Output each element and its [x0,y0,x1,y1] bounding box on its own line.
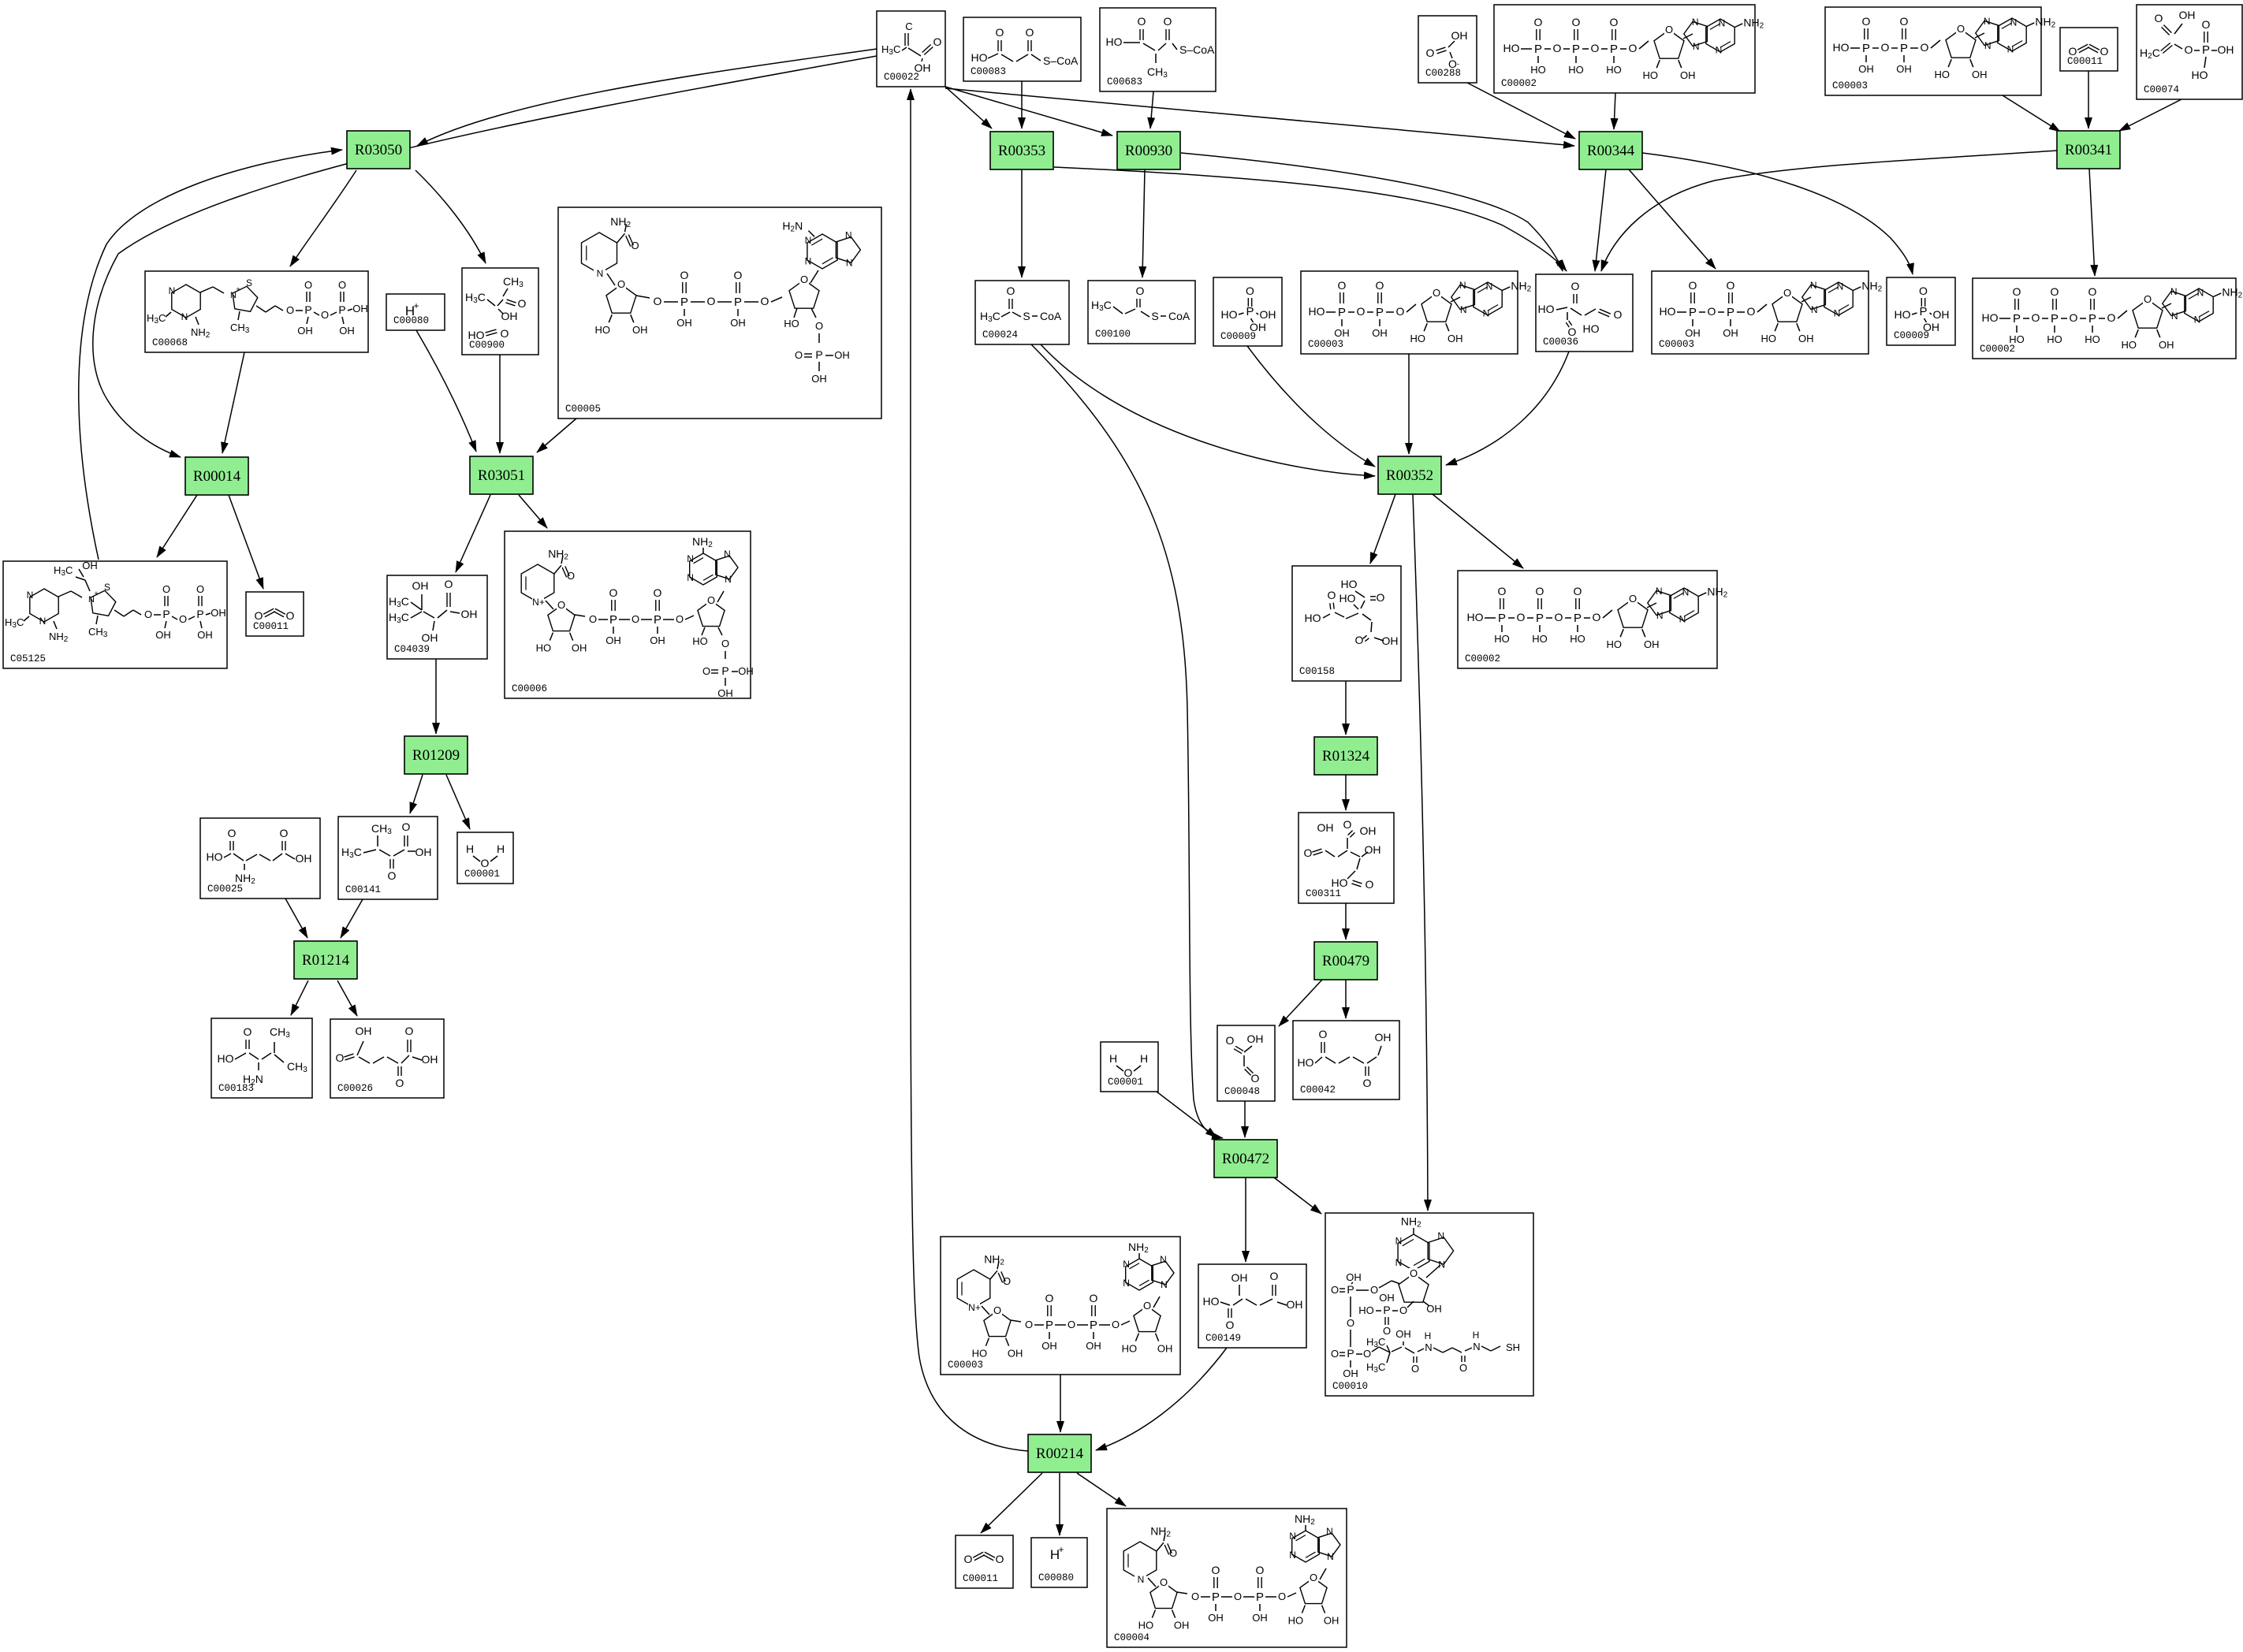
svg-text:OH: OH [1287,1298,1303,1311]
svg-text:O: O [1459,1362,1467,1374]
svg-text:O: O [1212,1564,1220,1576]
svg-text:HO: HO [1642,69,1658,81]
svg-text:O: O [1957,23,1965,35]
svg-text:C00083: C00083 [971,66,1006,77]
svg-text:OH: OH [356,1025,372,1037]
svg-text:C00003: C00003 [948,1360,983,1371]
compound C00900 acetoin [462,268,538,355]
wire C00683 to R00930 [1150,91,1153,128]
svg-text:N: N [805,256,812,267]
svg-text:O: O [996,26,1004,39]
svg-text:C00010: C00010 [1332,1381,1368,1392]
svg-text:N: N [1811,304,1818,315]
svg-text:N: N [1395,1236,1403,1247]
svg-text:OH: OH [676,317,692,329]
svg-text:O: O [734,269,743,281]
svg-text:HO: HO [2192,69,2208,81]
svg-text:O: O [1338,279,1347,292]
wire C00003 to R00341 [2003,95,2060,132]
svg-text:C00048: C00048 [1224,1086,1260,1097]
svg-text:HO: HO [1298,1056,1314,1069]
svg-text:HO: HO [1532,633,1548,645]
svg-text:R00341: R00341 [2065,142,2112,158]
svg-text:O: O [1246,285,1254,297]
wire C00009 to R00352 [1247,346,1375,467]
svg-text:N: N [39,616,47,627]
wire R01209 to C00141 [410,775,423,813]
wire R01324 to C00311 [1345,775,1347,810]
svg-text:P: P [1256,1591,1264,1604]
svg-text:O: O [321,309,329,321]
wire C00048 to R00472 [1244,1101,1246,1137]
reaction R01209 [404,736,468,774]
svg-text:O: O [196,583,204,595]
reaction R00352 [1378,456,1441,494]
svg-text:HO: HO [1570,633,1585,645]
compound C00100 propanoyl-CoA [1088,281,1195,344]
svg-text:C00011: C00011 [2067,56,2103,67]
svg-text:O: O [1433,287,1440,299]
svg-text:C00900: C00900 [469,340,505,351]
svg-text:P: P [2051,312,2059,326]
svg-text:C00003: C00003 [1659,339,1694,350]
svg-text:P: P [2013,312,2021,326]
svg-text:OH: OH [422,1053,438,1066]
svg-text:R00352: R00352 [1386,467,1433,484]
svg-text:O: O [1357,305,1366,318]
reaction R00014 [185,457,248,495]
svg-text:OH: OH [461,608,478,620]
svg-text:OH: OH [1252,1612,1268,1624]
wire R00472 to C00010 [1271,1175,1321,1214]
svg-text:C00311: C00311 [1306,888,1341,899]
svg-text:HO: HO [2085,333,2100,345]
wire R00341 to C00002 [2089,169,2095,276]
svg-text:HO: HO [1467,611,1484,623]
svg-text:O: O [1591,42,1600,54]
compound C00683 (S)-methylmalonyl-CoA [1100,8,1216,91]
svg-text:O: O [1160,1576,1168,1588]
compound C00149 (S)-malate [1198,1264,1306,1348]
svg-text:N: N [2197,287,2204,298]
svg-text:OH: OH [1972,69,1988,80]
svg-text:O: O [1270,1270,1279,1282]
svg-text:HO: HO [1203,1295,1220,1308]
svg-text:N: N [1682,587,1690,598]
svg-text:O: O [1396,305,1405,318]
svg-text:P: P [1383,1304,1390,1316]
svg-text:HO: HO [971,51,988,64]
svg-text:O: O [1331,1348,1339,1360]
svg-text:HO: HO [1339,592,1356,605]
svg-text:N: N [1161,1279,1168,1290]
svg-text:N+: N+ [968,1302,981,1313]
svg-text:HO: HO [1410,333,1425,344]
svg-text:HO: HO [1138,1620,1154,1632]
svg-text:OH: OH [1426,1303,1442,1315]
reaction R03051 [470,456,533,494]
svg-text:O: O [1251,1072,1260,1085]
svg-text:HO: HO [1106,35,1123,48]
compound C00022 pyruvate [877,11,945,87]
svg-text:R00472: R00472 [1222,1151,1269,1167]
svg-text:N: N [687,553,694,564]
svg-text:C04039: C04039 [394,644,430,655]
svg-text:C00183: C00183 [218,1083,254,1094]
svg-text:P: P [162,608,170,620]
svg-text:OH: OH [650,634,665,646]
svg-text:HO: HO [1538,303,1555,315]
svg-text:OH: OH [352,303,368,314]
svg-text:O: O [1629,42,1638,54]
svg-text:N+: N+ [532,597,545,608]
svg-text:O: O [933,35,942,48]
svg-text:HO: HO [784,318,799,329]
svg-text:N: N [1327,1551,1334,1562]
svg-text:HO: HO [1494,633,1510,645]
svg-text:N: N [687,572,694,583]
svg-text:O: O [179,613,187,625]
svg-text:OH: OH [501,310,518,322]
svg-text:O: O [501,327,509,340]
compound C00158 citrate [1292,566,1401,681]
svg-text:O: O [1025,1319,1033,1330]
svg-text:O: O [609,586,618,599]
svg-text:O: O [336,1051,345,1064]
svg-text:P: P [1246,305,1254,318]
svg-text:O: O [2088,285,2097,298]
svg-text:O: O [1555,611,1563,623]
svg-text:O: O [2070,311,2078,324]
svg-text:O: O [617,278,625,290]
svg-text:O: O [1689,279,1697,292]
svg-text:O: O [1304,846,1313,859]
svg-text:P: P [304,303,311,316]
svg-text:O: O [1343,818,1352,831]
reaction R01214 [294,941,357,979]
svg-text:N: N [1692,17,1699,28]
svg-text:P: P [1862,42,1870,55]
svg-text:S–CoA: S–CoA [1043,54,1079,67]
svg-text:P: P [609,613,617,627]
svg-text:N: N [1984,16,1991,27]
svg-text:C00158: C00158 [1299,666,1335,677]
wire R00353 to C00036 [1054,167,1567,271]
svg-text:+: + [1058,1544,1064,1555]
svg-text:N: N [2007,44,2014,55]
svg-text:OH: OH [834,349,850,361]
svg-text:HO: HO [1934,69,1950,80]
wire R03051 to C00006 [519,495,547,528]
svg-text:+: + [413,300,419,311]
svg-text:O: O [1363,1348,1371,1360]
svg-text:O: O [1498,585,1507,597]
svg-text:N: N [1460,304,1467,315]
svg-text:C00074: C00074 [2144,84,2179,95]
svg-text:H: H [1140,1052,1148,1065]
wire C00003 to R00352 [1408,354,1410,454]
svg-text:OH: OH [1360,824,1377,837]
svg-text:O: O [815,320,823,332]
svg-text:N: N [1326,1526,1333,1537]
svg-text:OH: OH [297,325,313,337]
svg-text:O: O [228,827,237,839]
svg-text:N: N [1656,610,1664,621]
compound C00080 H+ [1031,1538,1087,1587]
svg-text:HO: HO [536,642,552,654]
wire R00930 to C00036 [1181,153,1563,271]
svg-text:OH: OH [1798,333,1814,344]
svg-text:O: O [1614,308,1623,321]
svg-text:HO: HO [1660,305,1676,318]
svg-text:C00149: C00149 [1205,1333,1241,1344]
svg-text:HO: HO [1305,612,1321,624]
svg-text:O: O [1553,42,1562,54]
svg-text:OH: OH [738,665,754,677]
wire C05125 to R03050 [79,150,342,560]
svg-text:HO: HO [1895,308,1911,321]
svg-text:O: O [286,304,294,316]
compound C00003 ADP-like [1301,271,1532,354]
svg-text:OH: OH [1008,1348,1023,1360]
svg-text:O: O [964,1553,973,1565]
svg-text:O: O [2013,285,2021,298]
svg-text:HO: HO [218,1052,234,1065]
svg-text:OH: OH [1448,333,1463,344]
svg-text:O: O [1574,585,1582,597]
compound C00068 thiamine diphosphate [145,271,368,352]
compound C00003 NAD+ [941,1237,1180,1375]
svg-text:O: O [518,297,527,310]
wire R00344 to C00009 [1642,153,1913,274]
wire C00005 to R03051 [537,419,576,452]
svg-text:R00214: R00214 [1036,1445,1084,1462]
svg-text:HO: HO [1606,64,1622,76]
wire R00352 to C00010 [1413,494,1428,1211]
svg-text:O: O [144,608,152,620]
compound C00003 ADP-like [1652,271,1883,354]
compound C00010 CoA [1325,1213,1533,1396]
wire C00141 to R01214 [341,899,363,938]
svg-text:P: P [1045,1319,1053,1332]
svg-text:O: O [1067,1319,1075,1330]
reaction R01324 [1314,737,1377,775]
svg-text:O: O [1090,1292,1098,1304]
svg-text:C00100: C00100 [1095,329,1131,340]
svg-text:P: P [815,348,822,361]
svg-text:OH: OH [811,373,827,385]
svg-text:O: O [680,269,689,281]
svg-text:C: C [905,20,912,32]
svg-text:N: N [1160,1254,1167,1265]
svg-text:H: H [1109,1052,1117,1065]
svg-text:O: O [1007,285,1015,297]
svg-text:O: O [1783,287,1791,299]
compound C00183 L-valine [211,1018,312,1098]
svg-text:C00025: C00025 [207,884,243,895]
compound C00005 NADPH [558,207,881,419]
wire C00074 to R00341 [2119,99,2182,131]
svg-text:O: O [162,583,170,595]
svg-text:OH: OH [1041,1340,1057,1352]
svg-text:N: N [1656,586,1663,597]
svg-text:P: P [734,296,742,309]
svg-text:OH: OH [82,560,98,571]
svg-text:O: O [1226,1034,1235,1047]
svg-text:OH: OH [1685,327,1701,339]
reaction R00930 [1117,132,1180,169]
svg-text:C00042: C00042 [1300,1085,1336,1096]
compound C00003 ADP-like [1825,7,2056,95]
svg-text:O: O [1234,1591,1242,1602]
svg-text:O: O [1571,280,1580,292]
svg-text:O: O [396,1077,404,1089]
svg-text:P: P [1689,306,1697,319]
svg-text:N: N [1123,1278,1130,1289]
svg-text:HO: HO [972,1348,988,1360]
svg-text:O: O [2144,293,2152,305]
svg-text:HO: HO [207,850,223,863]
svg-text:O: O [1045,1292,1054,1304]
svg-text:O: O [1169,1547,1177,1559]
wire C00068 to R00014 [222,352,244,453]
svg-text:O: O [1026,26,1034,39]
svg-text:P: P [721,664,728,677]
svg-text:O: O [721,638,729,649]
svg-text:P: P [2202,43,2210,57]
wire R00214 to C00004 [1077,1473,1126,1506]
svg-text:HO: HO [1833,41,1850,54]
svg-text:HO: HO [1568,64,1584,76]
svg-text:O: O [2032,311,2040,324]
wire C04039 to R01209 [435,659,437,734]
wire R00479 to C00048 [1279,980,1322,1026]
svg-text:O: O [996,1553,1004,1565]
svg-text:OH: OH [1382,634,1399,647]
svg-text:O: O [2185,43,2193,56]
svg-text:OH: OH [1395,1328,1411,1340]
svg-text:H: H [497,843,505,855]
svg-text:O: O [1256,1564,1265,1576]
svg-text:C00006: C00006 [512,683,547,694]
svg-text:N: N [1459,280,1466,291]
svg-text:N: N [1679,614,1686,625]
wire C00022 to R00014 [93,56,877,457]
svg-text:N: N [2010,17,2018,28]
svg-text:C00011: C00011 [253,621,289,632]
svg-text:N: N [1437,1230,1444,1241]
svg-text:OH: OH [730,317,746,329]
wire C00002 to R00344 [1614,93,1615,129]
svg-text:O: O [1003,1275,1011,1287]
svg-text:P: P [1572,43,1580,56]
svg-text:O: O [1665,24,1673,35]
svg-text:O: O [1138,15,1146,28]
svg-text:P: P [338,303,345,316]
svg-text:O: O [2107,311,2116,324]
compound C00025 L-glutamate [200,818,320,899]
svg-text:O: O [1536,585,1544,597]
svg-text:CoA: CoA [1040,310,1062,322]
reaction R00479 [1314,942,1377,980]
svg-text:N: N [1289,1550,1296,1561]
svg-text:HO: HO [1221,308,1238,321]
svg-text:O: O [402,820,411,833]
svg-text:C00068: C00068 [152,337,188,348]
svg-text:C00022: C00022 [884,72,919,83]
svg-text:C00004: C00004 [1114,1632,1149,1643]
svg-text:C00288: C00288 [1425,68,1461,79]
svg-text:OH: OH [1933,308,1950,321]
svg-text:O: O [255,609,263,622]
svg-text:C00080: C00080 [1038,1572,1074,1583]
svg-text:OH: OH [1208,1612,1224,1624]
compound C00002 ATP [1458,571,1728,668]
wire C00024 to R00352 [1041,344,1375,476]
svg-text:OH: OH [1174,1620,1190,1632]
wire R00352 to C00158 [1370,494,1395,564]
svg-text:C00002: C00002 [1501,78,1537,89]
svg-text:P: P [1727,306,1734,319]
svg-text:N: N [1395,1257,1403,1268]
svg-text:O: O [445,578,453,590]
svg-text:O: O [1164,15,1172,28]
svg-text:O: O [567,570,575,582]
svg-text:OH: OH [155,629,171,641]
wire R00014 to C00011 [229,495,263,589]
wire C00011 to R00341 [2088,71,2089,128]
svg-text:R01214: R01214 [302,952,350,969]
wire C00022 to R00930 [945,87,1112,136]
wire R00472 to C00149 [1245,1175,1246,1262]
svg-text:+: + [94,590,98,597]
svg-text:OH: OH [717,687,733,699]
wire C00001 to R00472 [1157,1092,1217,1137]
svg-text:OH: OH [1157,1343,1173,1355]
svg-text:P: P [1347,1347,1354,1360]
svg-text:O: O [654,586,662,599]
compound C00002 ATP [1494,5,1764,93]
svg-text:C00024: C00024 [982,329,1018,340]
compound C00048 glyoxylate [1217,1025,1275,1101]
svg-text:O: O [1347,1317,1354,1329]
svg-text:OH: OH [1372,327,1388,339]
svg-text:O: O [676,613,684,625]
svg-text:CoA: CoA [1168,310,1190,322]
svg-text:O: O [2051,285,2059,298]
svg-text:N: N [1834,308,1841,319]
wire C00036 to R00352 [1446,352,1569,465]
svg-text:R00344: R00344 [1587,143,1635,159]
compound C00074 PEP [2137,5,2242,99]
svg-text:O: O [1610,16,1619,28]
svg-text:HO: HO [692,635,708,647]
svg-text:O: O [338,279,346,291]
svg-text:N: N [725,574,732,585]
svg-text:P: P [1536,612,1544,625]
svg-text:O: O [1399,1304,1407,1316]
svg-text:OH: OH [1451,29,1468,42]
svg-text:S: S [1151,310,1158,322]
svg-text:R00930: R00930 [1125,143,1172,159]
compound C00288 HCO3- [1418,16,1477,83]
svg-text:O: O [1319,1028,1328,1040]
wire C00022 to R00353 [945,87,992,128]
svg-text:O: O [1862,15,1871,28]
svg-text:OH: OH [1247,1032,1264,1045]
svg-text:O: O [1310,1572,1317,1583]
compound C04039 2,3-dihydroxy-isovalerate [387,575,487,659]
